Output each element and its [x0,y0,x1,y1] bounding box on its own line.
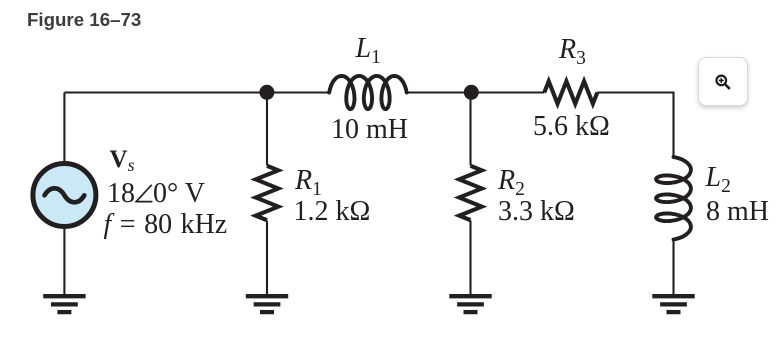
wire top-left horizontal segment [64,91,329,93]
wire between R3 and top-right corner, down to L2 [597,93,673,159]
wire R1 bottom lead [266,221,268,297]
wire source bottom lead [63,227,65,296]
wire between L1 and node B [407,91,545,93]
label L2 [706,164,731,192]
value 18 angle 0 V [107,180,205,208]
value 3.3 k-ohm [498,198,575,226]
magnifier icon [712,71,738,97]
label R3 [559,36,586,64]
source sine wave [45,188,85,202]
resistor R2 [459,166,482,220]
resistor R1 [256,166,279,220]
wire L2 bottom lead [672,239,674,296]
wire R2 bottom lead [469,221,471,297]
node B junction dot [464,85,479,100]
wire R2 top lead [469,93,471,166]
source Vs circle [33,164,96,227]
label R1 [295,167,322,195]
value 5.6 k-ohm [533,113,610,141]
resistor R3 [544,81,597,104]
wire left vertical source top lead [63,93,65,164]
node A junction dot [259,85,274,100]
inductor L2 [656,157,691,240]
figure title [27,9,141,31]
value 10 mH [331,116,408,144]
label R2 [498,167,525,195]
ground under R1 [246,296,288,312]
label L1 [356,35,381,63]
ground under L2 [652,296,694,312]
inductor L1 [329,76,407,109]
zoom button [698,57,748,106]
wire R1 top lead [266,93,268,166]
label Vs [110,147,135,172]
value 8 mH [706,198,769,226]
value f = 80 kHz [104,211,228,239]
ground under R2 [449,296,491,312]
ground under source [43,296,85,312]
value 1.2 k-ohm [294,198,371,226]
